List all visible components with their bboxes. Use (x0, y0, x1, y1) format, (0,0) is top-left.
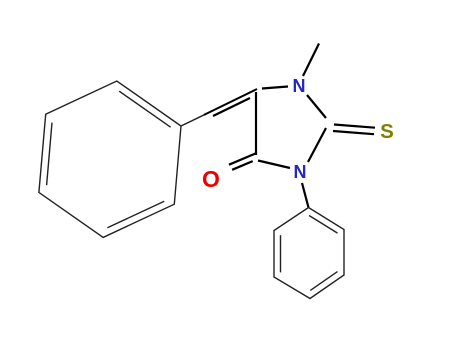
svg-text:N: N (293, 76, 306, 96)
svg-text:S: S (380, 120, 394, 143)
svg-text:O: O (202, 166, 220, 192)
svg-text:N: N (294, 162, 307, 182)
